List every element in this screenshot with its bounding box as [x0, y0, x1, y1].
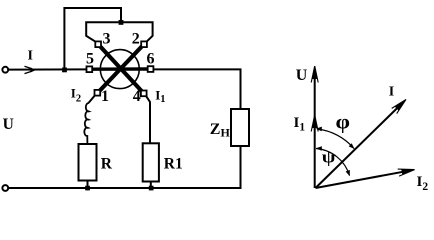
vector U	[314, 70, 316, 188]
svg-text:φ: φ	[336, 109, 351, 133]
wire terminal 1 to inductor	[89, 95, 95, 103]
angle arc psi	[316, 149, 350, 176]
node junction R bottom	[85, 186, 90, 191]
resistor R	[79, 144, 97, 181]
winding 3-4	[100, 46, 143, 92]
svg-text:U: U	[296, 67, 308, 84]
wire R1 bottom	[150, 182, 152, 189]
wire input top	[9, 68, 87, 70]
terminal 3	[95, 41, 101, 47]
svg-text:4: 4	[133, 88, 141, 105]
load Z_H	[231, 109, 249, 146]
wire load bottom	[240, 146, 242, 188]
winding 2-1	[99, 46, 143, 92]
wire outer loop to winding bracket	[64, 8, 121, 70]
node junction bracket	[119, 20, 124, 25]
wire bottom	[9, 187, 242, 189]
svg-text:ψ: ψ	[322, 148, 336, 166]
vector I1 arrowhead	[312, 115, 317, 128]
terminal 5	[87, 66, 93, 72]
winding 5-6	[92, 67, 149, 71]
terminal 6	[148, 66, 154, 72]
svg-text:R: R	[101, 155, 113, 172]
inductor coil	[84, 103, 89, 144]
vector I	[316, 102, 404, 188]
wire terminal 6 to load	[154, 69, 241, 109]
svg-text:6: 6	[147, 51, 155, 68]
terminal 1	[95, 90, 101, 96]
svg-text:2: 2	[132, 31, 140, 48]
svg-text:R1: R1	[164, 155, 183, 172]
phase regulator stator circle	[100, 50, 139, 89]
svg-text:I: I	[389, 85, 394, 100]
terminal input top-left	[2, 67, 8, 73]
node junction top wire	[62, 68, 67, 73]
wire R bottom	[87, 181, 89, 189]
terminal input bottom-left	[2, 185, 8, 191]
current arrow I	[25, 66, 33, 73]
svg-text:1: 1	[101, 88, 109, 105]
svg-text:3: 3	[103, 31, 111, 48]
wire bracket joining terminals 3 and 2	[86, 22, 152, 42]
svg-text:I: I	[27, 49, 32, 64]
vector I2	[316, 170, 412, 188]
terminal 4	[141, 91, 147, 97]
terminal 2	[141, 41, 147, 47]
node junction R1 bottom	[149, 186, 154, 191]
resistor R1	[143, 143, 159, 181]
svg-text:5: 5	[86, 51, 94, 68]
angle arc phi	[317, 129, 354, 149]
wire terminal 4 to R1	[146, 96, 150, 144]
svg-text:U: U	[3, 116, 14, 133]
